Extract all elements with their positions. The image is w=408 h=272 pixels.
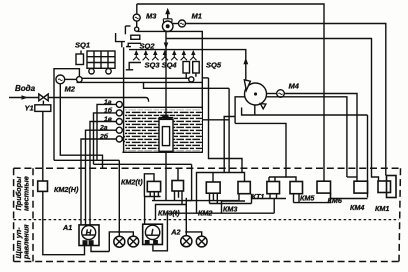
wire electrode 1a [97,104,116,160]
wire tank right out [202,119,229,121]
wire under KM2 [210,203,252,205]
wire lamp12 feed [109,232,133,252]
motor M2 [56,75,65,84]
wire under tank bus2 [94,163,192,165]
relay KM2t box1 [147,181,160,191]
air heater box 1 [183,62,190,74]
wire lamp3 drop [185,232,187,236]
wire KM2(N) down [43,191,85,254]
wire KT1 branch [235,123,296,181]
relay KM5 box [290,182,303,194]
meter I body [143,224,163,244]
svg-text:КМ3: КМ3 [223,204,237,213]
pump P1 body [162,21,173,32]
conveyor belt bottom [77,81,203,83]
wire M4 out [284,94,357,182]
wire fan outlet down [254,105,256,116]
valve Y1 [39,94,48,101]
wire heater feed drop [165,31,167,49]
svg-text:Н: Н [86,228,92,237]
wire I-meter feed [144,197,146,225]
meter H terminals [83,241,87,245]
svg-text:КТ1: КТ1 [252,192,265,201]
nozzle 4 [162,50,168,60]
panel dashed right [399,168,401,261]
wire lamp34 feed [185,198,187,232]
wire under box2 [152,200,192,202]
electrode 1a insulator [116,101,122,107]
nozzle 7 [190,50,196,60]
conveyor roller left [77,77,83,83]
relay KM2t box2 [172,181,184,192]
solenoid Y1 box [35,105,51,112]
electrode 2a insulator [116,127,122,133]
fan housing [245,83,267,105]
motor M1 [179,20,186,27]
limit switch SQ1 body [76,54,84,65]
wire under tank bus1 [54,159,119,161]
wire KM3 stub down [239,194,252,204]
switch SQ2 arm [125,25,130,27]
wire top bus 3 [166,39,379,182]
wire lamp34 link [186,232,201,236]
wire meter H right loop [91,246,109,252]
electrode 2b insulator [116,136,122,142]
nozzle 5 [171,50,177,60]
wire loop mid [197,173,245,214]
wire heater feed [165,50,167,116]
wire KM2-KM3 link [186,200,239,202]
relay KM1 box [378,181,391,193]
conveyor roller right [189,77,194,82]
wire chamber right drop [209,78,243,173]
wire box2 top stub [177,168,179,180]
chamber left wall [123,47,125,152]
wire loop bottom [167,212,274,214]
relay KM3 box [238,182,250,194]
svg-text:КМ2: КМ2 [198,209,212,218]
panel dashed border left [14,168,401,261]
panel dashed bottom [14,261,399,263]
electrode 2b terminal [123,136,128,141]
svg-text:М3: М3 [146,12,157,21]
meter H body [79,225,99,246]
wire KM2 stubs down [210,193,218,203]
svg-text:КМ2(t): КМ2(t) [121,177,143,186]
wire fan to M4 [267,93,277,95]
svg-text:КМ2(Н): КМ2(Н) [54,185,79,194]
svg-text:М1: М1 [192,12,202,21]
wire line A chamber top [137,31,203,152]
wire electrode 1c [90,122,116,225]
wire KM2 top stub [212,173,214,183]
wire M3 shaft [136,21,138,27]
wire KT1 stubs [270,194,277,199]
relay KM4 box [354,181,368,193]
wire chamber step [202,77,208,79]
wire electrode 2a [86,130,117,225]
label KM3 box outline [222,201,246,213]
wire KM4 stub horizontal [347,176,357,178]
relay KM2 box [206,182,220,193]
svg-text:М4: М4 [289,81,300,90]
meter I terminals [146,241,149,244]
relay KM6 box [317,181,331,193]
fan outlet vane [260,104,266,109]
duct air arrow up [243,58,248,65]
node lamp junction [118,231,120,233]
svg-text:КМ5: КМ5 [300,194,315,203]
heater terminal blob [163,115,168,118]
wire drop 367 [367,115,369,198]
heater element inner [162,127,169,146]
wire stub fan low [224,117,235,173]
nozzle 3 [152,50,158,60]
wire M2 down [53,92,55,160]
wire meter I bottom loop [153,213,168,251]
svg-text:КМ1: КМ1 [375,204,389,213]
wire top bus 1 [137,4,324,177]
tank water hatch [125,110,202,151]
pump outlet arrow down into manifold [164,43,169,49]
wire valve stem [42,101,44,105]
svg-text:М2: М2 [65,84,76,93]
lamp HL3 [181,236,192,247]
electrode 1b insulator [116,110,122,116]
switch SQ2 mount [116,33,125,42]
switch SQ2 box [131,35,140,39]
tank bottom [122,151,202,153]
tank water surface [124,106,203,108]
svg-text:Y1: Y1 [25,104,34,113]
wire pump to M1 [173,23,179,25]
panel dashed middle [14,219,399,221]
nozzle 2 [143,50,149,60]
wire box1 stubs [150,192,158,201]
relay KT1 box [267,182,280,194]
wire electrode 1b [94,113,117,164]
wire KT1 stub [269,177,275,182]
wire KM6 stub [323,177,325,181]
relay KM1 frame [387,176,397,198]
node lamp34 junction [185,231,187,233]
lamp HL1 [114,236,125,247]
conveyor belt top [82,77,189,79]
wire lamp12 top feed [118,160,120,232]
lamp HL2 [128,236,139,247]
heater element outer [159,119,173,151]
contactor KM2(N) box [38,181,48,191]
svg-text:А1: А1 [62,223,72,232]
wire bus y115 [242,108,368,116]
panel dashed divider column [32,168,34,261]
wire M2 bottom [60,84,102,169]
switch SQ3 SQ4 flag [129,63,141,70]
wire electrode 2b [81,139,116,225]
wire top bus 2 from M1 [186,24,386,176]
svg-text:КМ4: КМ4 [350,203,364,212]
wire drop to KM3 [228,88,230,172]
svg-text:местные: местные [22,176,31,211]
nozzle 6 [181,50,187,60]
svg-text:SQ5: SQ5 [206,61,222,70]
pump outlet arrow up [167,13,169,20]
wire conveyor sensor [144,82,230,88]
heater top bar [159,117,173,119]
fan inlet vane [244,80,250,91]
wire fan circuit [235,97,347,177]
pipe water inlet [9,98,149,102]
switch SQ2 flag [128,43,141,46]
crate wheel left [89,69,94,74]
wire box2 stubs [175,191,183,205]
air heater box 2 [193,62,200,74]
wire drop from tank bus [191,164,193,200]
wire under KM6 [294,194,300,203]
crate wheel right [106,69,111,74]
svg-text:SQ1: SQ1 [75,41,90,50]
motor M4 [277,90,285,98]
wire M2 shaft to roller [65,78,77,80]
nozzle 1 [133,50,139,60]
pipe flow arrow [22,95,29,100]
wire M2 top [54,69,79,92]
svg-text:А2: А2 [170,227,180,236]
wire km3t label box [156,205,187,220]
svg-text:равления: равления [22,224,31,260]
svg-text:SQ3 SQ4: SQ3 SQ4 [145,60,178,69]
wire KM2t loop [144,174,154,197]
wire Y1 drop [42,111,44,181]
electrode 1c insulator [116,119,122,125]
svg-text:КМ3(t): КМ3(t) [158,208,180,217]
lamp HL4 [196,236,207,247]
node pulley under M3 [135,27,139,31]
panel dashed top [14,167,399,169]
wire spray manifold [129,50,246,81]
wire heater bottom drop [165,152,167,200]
wire heater box stubs [185,73,187,78]
wire lamp1 drop [118,232,120,236]
motor M3 [133,14,140,21]
svg-text:Вода: Вода [15,84,36,93]
wire under box1 [144,196,160,198]
crate basket [87,51,115,68]
wire M3 drop [136,4,138,14]
